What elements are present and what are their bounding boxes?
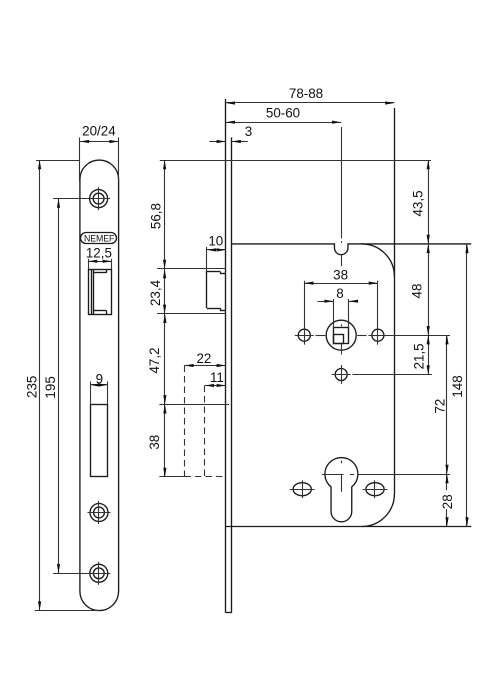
svg-text:3: 3 bbox=[245, 124, 252, 139]
svg-text:235: 235 bbox=[24, 376, 39, 398]
svg-text:38: 38 bbox=[147, 435, 162, 450]
svg-text:12,5: 12,5 bbox=[86, 245, 112, 260]
svg-text:78-88: 78-88 bbox=[289, 86, 323, 101]
svg-text:148: 148 bbox=[450, 375, 465, 397]
svg-text:NEMEF: NEMEF bbox=[84, 233, 115, 243]
svg-text:56,8: 56,8 bbox=[148, 203, 163, 229]
svg-text:21,5: 21,5 bbox=[411, 343, 426, 369]
svg-text:72: 72 bbox=[433, 399, 448, 414]
svg-text:38: 38 bbox=[333, 268, 348, 283]
svg-text:43,5: 43,5 bbox=[410, 190, 425, 216]
svg-text:195: 195 bbox=[43, 376, 58, 398]
svg-text:22: 22 bbox=[196, 351, 211, 366]
svg-text:23,4: 23,4 bbox=[148, 279, 163, 306]
svg-text:11: 11 bbox=[210, 370, 224, 385]
svg-text:48: 48 bbox=[410, 284, 425, 299]
svg-text:8: 8 bbox=[336, 286, 343, 301]
svg-text:10: 10 bbox=[208, 233, 223, 248]
svg-text:50-60: 50-60 bbox=[266, 105, 300, 120]
svg-text:20/24: 20/24 bbox=[82, 123, 116, 138]
svg-text:47,2: 47,2 bbox=[147, 347, 162, 373]
svg-text:28: 28 bbox=[440, 494, 455, 509]
